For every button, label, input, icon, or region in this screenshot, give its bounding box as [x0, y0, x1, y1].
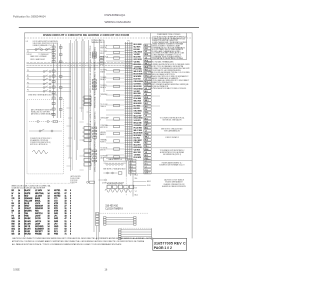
wire stub row 2: [27, 52, 54, 54]
relay contact K14: [52, 114, 55, 116]
relay contact K12: [52, 103, 55, 105]
option box element zigzag: [32, 150, 48, 154]
connector block P15: [124, 185, 128, 188]
svg-text:DOOR LATCH SWITCH SHOWN IN: DOOR LATCH SWITCH SHOWN IN: [33, 40, 58, 43]
svg-text:W-2: W-2: [146, 133, 149, 135]
dashed drop wire: [125, 176, 127, 196]
connector pin row D4: [93, 160, 97, 162]
wire vertical V7: [103, 40, 105, 92]
element wire row: [103, 172, 117, 174]
svg-text:UNLOCKED POSITION / POSICION: UNLOCKED POSITION / POSICION: [33, 43, 58, 45]
wire junction tick 15: [87, 135, 91, 137]
wire stub to connector 21: [106, 136, 125, 138]
svg-text:316 455 410: 316 455 410: [105, 206, 118, 208]
wire vertical V6: [99, 39, 101, 232]
left connector cells stack bottom: [96, 213, 99, 226]
svg-text:OVEN SELECTOR SWITCH / SELECTO: OVEN SELECTOR SWITCH / SELECTOR DEL HORN…: [90, 45, 92, 108]
svg-text:CONV FANMOTOR 10: CONV FANMOTOR 10: [100, 124, 108, 129]
svg-text:HIDDENBAKE 11: HIDDENBAKE 11: [100, 132, 106, 136]
svg-text:BROIL / ASAR 3400W: BROIL / ASAR 3400W: [31, 58, 46, 61]
svg-text:K: K: [82, 104, 83, 106]
svg-text:2. DISCONNECT POWER BEFORE SE: 2. DISCONNECT POWER BEFORE SERVICING THE…: [148, 68, 191, 70]
wire vertical V2b: [77, 41, 79, 150]
wire stub to connector 4: [106, 54, 125, 56]
svg-text:PAGE:1 // 2: PAGE:1 // 2: [154, 246, 172, 250]
title underline: [25, 37, 193, 39]
relay coil box RC3: [84, 103, 91, 106]
wire to right margin 2: [132, 134, 192, 136]
wire vertical V3b: [84, 41, 86, 104]
connector pin row A3: [92, 56, 96, 58]
wire vertical V1b: [71, 43, 73, 170]
connector pin row B3: [92, 85, 96, 87]
svg-text:WIRING DIAGRAM: WIRING DIAGRAM: [105, 20, 132, 24]
svg-text:2: 2: [82, 40, 83, 42]
connector pin row E1: [100, 57, 104, 59]
svg-text:TO TERM BLK 7: TO TERM BLK 7: [39, 54, 50, 56]
svg-text:BK-1 BK00W-2 W73R-3 R46OR-4 BK: BK-1 BK00W-2 W73R-3 R46OR-4 BK19Y-5 W82B…: [134, 44, 143, 159]
svg-text:CAUTION: DISCONNECT POWER BEFO: CAUTION: DISCONNECT POWER BEFORE SERVICI…: [12, 237, 153, 240]
connector block P12: [107, 185, 111, 188]
wire junction tick 2: [67, 125, 71, 127]
connector lower cell stack B: [144, 159, 151, 174]
wire stub to connector 25: [106, 158, 125, 160]
svg-text:POSITION /: POSITION /: [70, 180, 78, 182]
wire stub to connector 9: [106, 77, 125, 79]
wire stub right upper 4: [132, 95, 160, 97]
svg-text:5.95E: 5.95E: [13, 269, 20, 272]
svg-text:DOOR LATCH SWITCH / INTERRUPTO: DOOR LATCH SWITCH / INTERRUPTOR DEL PEST…: [89, 107, 92, 170]
svg-text:Y16YELLOWBROIL16CT2193: Y16YELLOWBROIL16CT2193: [12, 200, 72, 202]
terminal pad row dashes: [104, 162, 107, 164]
svg-text:OR-2Y-3BU-4GY-5V-6: OR-2Y-3BU-4GY-5V-6: [129, 160, 133, 174]
connector tail wire 2: [130, 161, 132, 177]
svg-text:L1 BK-12 240VAC L2: L1 BK-12 240VAC L2: [165, 136, 179, 139]
relay ladder vertical rail 3: [60, 44, 62, 118]
svg-text:S: S: [82, 136, 83, 138]
wire junction tick 7: [67, 165, 71, 167]
inline component box M13: [114, 148, 120, 150]
relay coil box RC1: [84, 96, 91, 99]
inline component box M8: [114, 104, 120, 106]
door lock motor box: [90, 181, 95, 183]
relay contact K7: [52, 75, 55, 77]
wire stub to connector 6: [106, 60, 125, 62]
switch box SC2: [84, 154, 91, 157]
relay contact K1: [52, 46, 55, 48]
wire vertical V3: [82, 39, 84, 120]
svg-text:ALL PANELS MUST BE IN PLACE /: ALL PANELS MUST BE IN PLACE / TODOS LOS …: [12, 243, 122, 246]
svg-text:FWS3069GQA: FWS3069GQA: [105, 13, 127, 17]
element lower stub: [99, 179, 105, 181]
svg-text:16: 16: [105, 269, 108, 272]
wire vertical V2a: [74, 41, 76, 140]
option box switch row 2: [29, 130, 62, 132]
connector pin row C1: [93, 127, 97, 129]
part number box: [153, 238, 187, 250]
svg-text:WB16WH-BKDOOR16SW2476: WB16WH-BKDOOR16SW2476: [12, 218, 72, 220]
svg-text:TO OVENSTAT 4: TO OVENSTAT 4: [100, 69, 106, 73]
connector pin row C4: [93, 137, 97, 139]
wire vertical V1: [70, 40, 72, 171]
inline component box M11: [114, 132, 120, 134]
connector tail wire 1: [125, 161, 127, 177]
cable bundle 2 wires: [121, 230, 152, 239]
legend box COMPONENT CODE: [151, 33, 187, 60]
svg-text:COMPONENT CODE / CODIGO: COMPONENT CODE / CODIGO: [157, 34, 181, 36]
dashed optional-equipment box: [27, 99, 64, 173]
riser branch wire 1: [133, 180, 146, 182]
svg-text:R14REDL2 240V14NOTE2116: R14REDL2 240V14NOTE2116: [12, 195, 72, 197]
svg-text:TO BAKERELAY 5: TO BAKERELAY 5: [100, 76, 106, 81]
svg-text:L2: L2: [27, 86, 29, 88]
wire stub to connector 5: [106, 57, 125, 59]
cable bundle 1 left cells: [103, 217, 106, 226]
connector pin row A1: [92, 52, 96, 54]
wire bus band line 3: [27, 66, 132, 68]
switch box SB3: [84, 135, 91, 138]
relay ladder vertical rail 2: [56, 44, 58, 118]
wire riser to clock: [132, 173, 134, 197]
relay coil box RC2: [84, 100, 91, 103]
connector pin row D3: [93, 157, 97, 159]
ladder top dashed rule: [96, 212, 148, 214]
svg-text:BW18BU-WHLAMP18LP2553: BW18BU-WHLAMP18LP2553: [12, 222, 72, 225]
wire stub to connector 12: [106, 90, 125, 92]
connector pin row A2: [92, 54, 96, 56]
wire junction tick 11: [80, 155, 84, 157]
svg-text:TO OVEN LIGHT 2: TO OVEN LIGHT 2: [91, 40, 104, 42]
connector pin row C3: [93, 133, 97, 135]
wire color table top rule: [26, 182, 74, 184]
wire junction tick 8: [80, 107, 84, 109]
relay contact K4: [52, 57, 55, 59]
element fuse box: [118, 172, 122, 174]
wire junction tick 5: [68, 137, 72, 139]
left drop wires: [97, 226, 99, 240]
connector pin row E3: [100, 63, 104, 65]
wire stub to connector 3: [106, 51, 125, 53]
connector pin row E2: [100, 60, 104, 62]
relay contact K5: [52, 60, 55, 62]
relay contact K9: [52, 86, 55, 88]
svg-text:K: K: [82, 97, 83, 99]
svg-text:TO DOORSWITCH 1: TO DOORSWITCH 1: [100, 45, 107, 49]
svg-text:3 SELECTOR SWITCH / SELECTOR: 3 SELECTOR SWITCH / SELECTOR: [152, 40, 179, 42]
svg-text:S: S: [82, 132, 83, 134]
wire junction tick 10: [80, 139, 84, 141]
svg-text:L1: L1: [26, 41, 28, 43]
wire stub right upper 2: [132, 73, 152, 75]
connector P1 rail right inner: [129, 42, 131, 161]
relay contact K10: [52, 92, 55, 94]
wire junction tick 6: [68, 157, 72, 159]
svg-text:1: 1: [75, 40, 76, 42]
svg-text:TO BROILRELAY 6: TO BROILRELAY 6: [100, 85, 107, 89]
wire row L2: [27, 87, 71, 89]
wire vertical V3a: [81, 41, 83, 112]
relay ladder vertical rail 1: [53, 44, 55, 118]
door lock motor contact: [87, 181, 89, 183]
switch S1: [35, 49, 37, 51]
wire stub to connector 18: [106, 119, 125, 121]
svg-text:P6: P6: [27, 78, 29, 80]
svg-text:T18TANSWITCH18SW1390: T18TANSWITCH18SW1390: [12, 212, 72, 215]
svg-text:RW16RD-WHLATCH16SW3510: RW16RD-WHLATCH16SW3510: [12, 220, 72, 223]
svg-text:LATCH SHOWN: LATCH SHOWN: [70, 175, 80, 178]
wire stub to connector 15: [106, 104, 125, 106]
connector pin row B4: [92, 88, 96, 90]
svg-text:BK-5: BK-5: [146, 124, 150, 126]
riser branch wire 2: [133, 184, 146, 186]
svg-text:1. ALL WIRING SHOWN WITH DOOR: 1. ALL WIRING SHOWN WITH DOOR CLOSED AND…: [148, 63, 190, 66]
inline component box M10: [114, 125, 120, 127]
switch box SB4: [84, 139, 91, 142]
connector P1 rail right: [131, 42, 133, 161]
wire vertical V1a: [68, 43, 70, 158]
wire junction tick 3: [67, 145, 71, 147]
inline component box M2: [114, 51, 120, 53]
svg-text:MOTOR 10 / MOTEUR 10: MOTOR 10 / MOTEUR 10: [30, 144, 48, 146]
switch box SC1: [84, 149, 91, 152]
svg-text:TERM BLK7: TERM BLK7: [100, 94, 107, 98]
connector pin row B2: [92, 82, 96, 84]
wire stub to connector 17: [106, 114, 125, 116]
svg-text:PK18PINKLIGHT18LP1433: PK18PINKLIGHT18LP1433: [12, 216, 72, 218]
switch box SC3: [84, 158, 91, 161]
wire stub to connector 20: [106, 130, 125, 132]
connector pin row D1: [93, 150, 97, 152]
wire row P4: [27, 83, 71, 85]
wire to right margin 5: [132, 173, 192, 175]
wire vertical V2: [75, 39, 77, 160]
svg-text:V18VIOLETSENSOR18RTD313: V18VIOLETSENSOR18RTD313: [12, 208, 72, 210]
connector P1 rail left inner: [126, 42, 128, 161]
wire stub to connector 19: [106, 125, 125, 127]
switch box SB1: [84, 127, 91, 130]
svg-text:THERMALFUSE 12: THERMALFUSE 12: [100, 139, 107, 144]
relay contact K3: [52, 53, 55, 55]
wire to right margin 4: [132, 160, 192, 162]
header rule: [19, 27, 199, 29]
connector P1 rail left: [124, 42, 126, 161]
wire stub to connector 11: [106, 85, 125, 87]
wire row N1: [27, 76, 71, 78]
cable bundle 2 top dashed rule: [121, 227, 152, 229]
svg-text:TO CONVECTION FAN MOTOR / AL: TO CONVECTION FAN MOTOR / AL: [160, 117, 185, 120]
wire stub right upper 3: [132, 83, 152, 85]
svg-text:ANTI-TIP BRACKET MUST BE: ANTI-TIP BRACKET MUST BE: [31, 108, 52, 111]
wire junction tick 13: [87, 111, 91, 113]
svg-text:P2: P2: [27, 51, 29, 53]
wire stub to connector 23: [106, 148, 125, 150]
svg-text:TO LIGHTSW 2: TO LIGHTSW 2: [100, 51, 107, 55]
svg-text:TO CLOCKTIMER 8: TO CLOCKTIMER 8: [100, 104, 107, 108]
connector pin row B1: [92, 80, 96, 82]
wire stub to connector 14: [106, 99, 125, 101]
switch box SB2: [84, 131, 91, 134]
wire stub to connector 8: [106, 73, 125, 75]
connector P1 pin ticks: [125, 44, 133, 159]
wire vertical V4: [88, 40, 90, 183]
svg-text:SEE NOTE 3 / VEA LA NOTA 3 /: SEE NOTE 3 / VEA LA NOTA 3 /: [161, 127, 183, 130]
wire bus band line 2: [27, 65, 132, 67]
cable bundle 1 right cells: [134, 217, 137, 226]
wire junction tick 4: [68, 117, 72, 119]
svg-text:W-10: W-10: [147, 185, 151, 187]
svg-text:ATTENTION: COUPER LE COURANT A: ATTENTION: COUPER LE COURANT AVANT L'ENT…: [12, 240, 145, 243]
svg-text:R-8: R-8: [146, 146, 149, 148]
svg-text:CLOCK/TIMER 8: CLOCK/TIMER 8: [105, 209, 123, 211]
wire stub to connector 16: [106, 109, 125, 111]
svg-text:P5: P5: [27, 90, 29, 92]
inline component box M6: [114, 85, 120, 87]
svg-text:P3: P3: [27, 70, 29, 72]
element section title box: [104, 158, 128, 161]
connector block P13: [113, 185, 117, 188]
wire junction tick 14: [87, 123, 91, 125]
svg-text:TO SURFACE UNIT RECEPTACLE /: TO SURFACE UNIT RECEPTACLE /: [160, 149, 185, 152]
wire stub to connector 10: [106, 81, 125, 83]
wire stub to connector 1: [106, 45, 125, 47]
wire row P5: [27, 90, 71, 92]
svg-text:WIRE COLOR CODE / CODIGO DE CO: WIRE COLOR CODE / CODIGO DE COLORES / GA: [12, 184, 52, 187]
svg-text:OVEN LIGHT SWITCH / INTERRUPTO: OVEN LIGHT SWITCH / INTERRUPTOR DE LA LU…: [93, 111, 96, 172]
svg-text:W318WH-RDPROBE18PRB716: W318WH-RDPROBE18PRB716: [12, 234, 72, 236]
connector lower cell stack A: [129, 159, 136, 174]
svg-text:OVEN CIRCUIT // CIRCUITO DE HO: OVEN CIRCUIT // CIRCUITO DE HORNO // CIR…: [43, 33, 130, 37]
inline component box M4: [114, 70, 120, 72]
svg-text:THERMOSTAT / TERMOSTATO DEL HO: THERMOSTAT / TERMOSTATO DEL HORNO 4 - SE…: [93, 47, 96, 108]
svg-text:Publication No: 5995344604: Publication No: 5995344604: [13, 14, 46, 18]
svg-text:N1: N1: [27, 75, 29, 77]
option box switch row 1: [29, 121, 62, 123]
connector pin row D2: [93, 153, 97, 155]
relay contact K2: [52, 50, 55, 52]
wire stub to connector 24: [106, 154, 125, 156]
svg-text:S: S: [82, 140, 83, 142]
main diagram border: [25, 33, 193, 239]
door lock coil: [105, 189, 131, 192]
wire bus band line 0: [27, 61, 132, 63]
connector pin row C2: [93, 130, 97, 132]
wire stub to connector 13: [106, 94, 125, 96]
wire to right margin 3: [132, 147, 192, 149]
inline component box M14: [114, 156, 120, 158]
svg-text:2 OVEN LIGHT SWITCH / INTERR: 2 OVEN LIGHT SWITCH / INTERRUPTOR LUZ: [152, 38, 185, 40]
wire L1 horizontal: [27, 49, 54, 51]
cable bundle 2 right rail: [151, 228, 153, 240]
svg-text:IN UNLOCKED: IN UNLOCKED: [70, 178, 80, 180]
svg-text:P4: P4: [27, 82, 29, 84]
svg-text:SEE NOTE 4 / VEA LA NOTA 4 /: SEE NOTE 4 / VEA LA NOTA 4 /: [103, 167, 126, 170]
wire to right margin 1: [132, 125, 192, 127]
inline component box M1: [114, 46, 120, 48]
svg-text:TO LATCHMOTOR: TO LATCHMOTOR: [100, 147, 107, 152]
inline component box M5: [114, 77, 120, 79]
inline component box M7: [114, 94, 120, 96]
wire row P6: [27, 79, 71, 81]
svg-text:CAUTION: DO NOT BUNDLE: CAUTION: DO NOT BUNDLE: [164, 179, 184, 182]
svg-text:K: K: [82, 101, 83, 103]
svg-text:N W-14: N W-14: [27, 54, 32, 56]
svg-text:P1: P1: [127, 40, 129, 42]
wire label column outer cells: [144, 44, 151, 159]
wire junction tick 1: [67, 107, 71, 109]
wire bus band line 1: [27, 63, 132, 65]
wire stub to connector 7: [106, 70, 125, 72]
wire vertical V5: [93, 39, 95, 232]
svg-text:NOTES: / NOTAS: / REMARQUES:: NOTES: / NOTAS: / REMARQUES:: [148, 61, 174, 64]
svg-text:HIDDEN BAKE ELEMENT 11 /: HIDDEN BAKE ELEMENT 11 /: [162, 162, 183, 165]
relay contact K6: [52, 70, 55, 72]
relay contact K11: [52, 97, 55, 99]
svg-text:DE SUPERFICIE (NOTE 5): DE SUPERFICIE (NOTE 5): [163, 154, 182, 156]
terminal pad row: [106, 163, 123, 165]
relay contact K13: [52, 108, 55, 110]
svg-text:OVEN LAMP9: OVEN LAMP9: [100, 117, 108, 122]
inline component box M9: [114, 118, 120, 120]
wire junction tick 12: [80, 169, 84, 171]
wire stub right upper 1: [132, 64, 152, 66]
wire junction tick 9: [80, 121, 84, 123]
connector block P14: [118, 185, 122, 188]
switch box SC4: [84, 163, 91, 166]
inline component box M12: [114, 140, 120, 142]
inline component box M3: [114, 57, 120, 59]
svg-text:CONVECCION (SEE NOTE 4): CONVECCION (SEE NOTE 4): [30, 142, 51, 144]
wire stub right upper 5: [132, 105, 160, 107]
cable bundle 2 left cells: [118, 229, 121, 240]
svg-text:CONVECTION OPTION ONLY /: CONVECTION OPTION ONLY /: [30, 138, 52, 140]
svg-text:S: S: [82, 128, 83, 130]
connector block P16: [129, 185, 133, 188]
wire stub to connector 22: [106, 142, 125, 144]
cable bundle 1 wires: [106, 218, 134, 225]
wire row P3: [27, 71, 71, 73]
switch S2: [46, 49, 48, 51]
svg-text:BK-11: BK-11: [147, 181, 151, 183]
relay contact K8: [52, 81, 55, 83]
wire stub to connector 2: [106, 48, 125, 50]
